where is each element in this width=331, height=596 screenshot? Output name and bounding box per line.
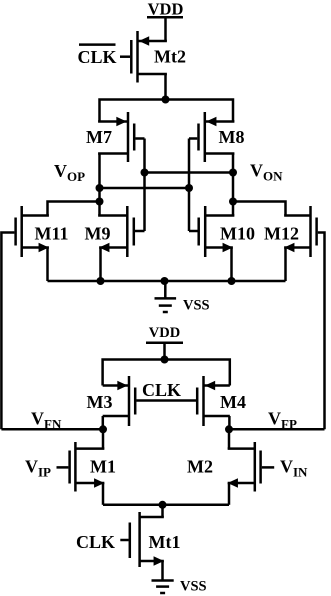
wire tail to Mt1 drain <box>161 505 164 517</box>
node input-stage supply junction <box>161 356 169 364</box>
svg-text:VSS: VSS <box>183 298 210 314</box>
transistor M10 (NMOS cross-coupled) <box>189 206 255 257</box>
wire latch supply rail to M7/M8 sources <box>100 100 234 122</box>
wire VON to M12 drain <box>233 202 286 216</box>
transistor Mt1 (NMOS tail switch) <box>120 512 180 567</box>
svg-text:VDD: VDD <box>148 0 184 19</box>
node VOP <box>54 161 104 206</box>
svg-text:VON: VON <box>250 161 283 184</box>
wire M3 gate to M4 gate <box>136 399 196 402</box>
node cross-couple at VOP <box>96 184 104 192</box>
wire right rail (M12 gate to VFP) <box>318 233 325 430</box>
wire VOP to M11 drain <box>48 202 100 216</box>
transistor M4 (PMOS reset switch) <box>197 376 246 426</box>
transistor M8 (PMOS cross-coupled) <box>189 112 245 162</box>
wire tail rail <box>103 504 229 507</box>
wire Mt1 source to ground <box>161 561 164 581</box>
node M7-M9 gate junction <box>141 169 149 177</box>
wire input-stage supply rail <box>103 360 230 386</box>
svg-text:M1: M1 <box>90 456 116 476</box>
transistor M12 (NMOS latch load) <box>264 206 317 257</box>
svg-text:VIP: VIP <box>25 457 51 480</box>
svg-text:Mt1: Mt1 <box>149 532 181 552</box>
node M8-M10 gate junction <box>185 184 193 192</box>
svg-text:M9: M9 <box>85 223 111 243</box>
node tail junction <box>159 501 167 509</box>
svg-text:M3: M3 <box>87 392 113 412</box>
transistor M3 (PMOS reset switch) <box>87 376 136 426</box>
node M10 source junction <box>228 277 236 285</box>
wire VOP column (M7 drain to M9 drain) <box>98 154 101 216</box>
node VFP <box>225 409 325 434</box>
node M9 source junction <box>97 277 105 285</box>
svg-text:VOP: VOP <box>54 161 85 184</box>
svg-text:M7: M7 <box>86 127 112 147</box>
svg-text:M4: M4 <box>220 392 246 412</box>
wire cross-couple upper (gates M7/M9 to VON) <box>145 171 234 174</box>
transistor Mt2 (PMOS tail switch) <box>120 31 186 83</box>
node latch supply junction <box>162 96 170 104</box>
svg-text:CLK: CLK <box>76 532 115 552</box>
wire VFN to M1 drain <box>102 429 105 448</box>
node VON <box>229 161 283 206</box>
wire M12 source to VSS rail <box>284 248 287 282</box>
node VFN <box>1 409 107 434</box>
transistor M7 (PMOS cross-coupled) <box>86 112 145 162</box>
node VSS tap junction <box>161 277 169 285</box>
wire VON column (M8 drain to M10 drain) <box>232 154 235 216</box>
transistor M9 (NMOS cross-coupled) <box>85 206 145 257</box>
wire M3 drain to VFN <box>102 416 105 429</box>
power rail VDD (input stage) <box>146 325 183 360</box>
wire M4 drain to VFP <box>228 416 231 429</box>
svg-text:M11: M11 <box>35 223 69 243</box>
wire M10 source to VSS rail <box>230 248 233 282</box>
label CLKbar (gate of Mt2) <box>77 45 116 67</box>
node cross-couple at VON <box>229 169 237 177</box>
power rail VDD (top) <box>147 0 183 41</box>
svg-text:VFP: VFP <box>268 409 297 432</box>
wire VSS rail (latch) <box>48 280 286 283</box>
svg-text:VDD: VDD <box>149 325 180 341</box>
svg-text:M10: M10 <box>220 223 255 243</box>
wire cross-couple lower (VOP to gates M8/M10) <box>100 187 190 190</box>
svg-text:VFN: VFN <box>31 409 62 432</box>
svg-text:VSS: VSS <box>180 579 207 595</box>
svg-text:M8: M8 <box>219 127 245 147</box>
svg-text:M12: M12 <box>264 223 299 243</box>
svg-text:VIN: VIN <box>280 457 308 480</box>
svg-text:CLK: CLK <box>142 380 181 400</box>
svg-text:CLK: CLK <box>77 47 116 67</box>
wire M9 source to VSS rail <box>99 248 102 282</box>
wire M7 gate / M9 gate riser <box>143 139 146 232</box>
transistor M1 (NMOS input) <box>57 442 117 492</box>
transistor M11 (NMOS latch load) <box>16 206 69 257</box>
wire left rail (M11 gate to VFN) <box>1 233 14 430</box>
transistor M2 (NMOS input) <box>187 442 274 492</box>
wire M11 source to VSS rail <box>46 248 49 282</box>
wire M8 gate / M10 gate riser <box>188 139 191 232</box>
wire Mt2 drain to latch supply rail <box>164 74 167 100</box>
svg-text:Mt2: Mt2 <box>154 47 186 67</box>
wire M2 source to tail rail <box>228 483 231 505</box>
wire VFP to M2 drain <box>228 429 231 448</box>
ground VSS (latch) <box>155 281 210 314</box>
wire M1 source to tail rail <box>102 483 105 505</box>
ground VSS (tail) <box>152 579 207 595</box>
svg-text:M2: M2 <box>187 456 213 476</box>
